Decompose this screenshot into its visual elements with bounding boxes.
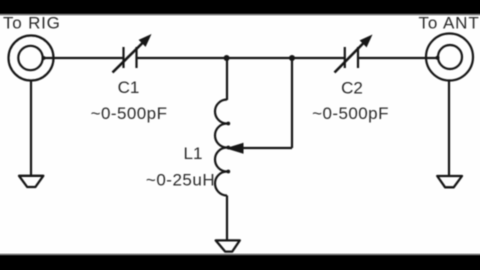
connector J2 (To ANT coax jack) bbox=[426, 34, 473, 81]
wire: L1 bottom to ground bbox=[226, 196, 228, 241]
wire: C2 to J2 bbox=[358, 56, 440, 60]
wire: J2 shell to ground bbox=[448, 81, 450, 176]
svg-text:To ANT: To ANT bbox=[419, 14, 480, 33]
node B (junction dot) bbox=[289, 55, 295, 61]
wire: C1 to node A bbox=[137, 57, 228, 59]
svg-text:To RIG: To RIG bbox=[3, 14, 61, 33]
svg-text:L1: L1 bbox=[184, 144, 203, 163]
svg-text:C2: C2 bbox=[341, 79, 363, 98]
wire: tap horizontal to L1 bbox=[243, 147, 293, 149]
wire: J1 shell to ground bbox=[30, 81, 32, 176]
wire: node A down to L1 bbox=[226, 58, 228, 100]
capacitor C1 (variable, ~0-500pF) bbox=[113, 34, 152, 73]
connector J1 (To RIG coax jack) bbox=[9, 36, 54, 81]
inductor L1 (4 turns, bulging left) bbox=[215, 100, 230, 196]
tap arrowhead (points left into L1) bbox=[226, 143, 244, 154]
node A (junction dot) bbox=[224, 55, 230, 61]
ground GND2 bbox=[216, 240, 240, 251]
wire: node A to node B bbox=[227, 57, 292, 59]
svg-text:~0-25uH: ~0-25uH bbox=[146, 171, 215, 190]
wire: node B down (tap feed) bbox=[291, 58, 293, 148]
svg-text:~0-500pF: ~0-500pF bbox=[91, 104, 168, 123]
svg-text:~0-500pF: ~0-500pF bbox=[312, 104, 389, 123]
capacitor C2 (variable, ~0-500pF) bbox=[335, 35, 373, 73]
wire: J1 center to C1 bbox=[42, 56, 124, 60]
ground GND3 bbox=[437, 176, 462, 187]
wire: node B to C2 bbox=[292, 57, 345, 59]
ground GND1 bbox=[19, 176, 43, 187]
svg-text:C1: C1 bbox=[118, 78, 140, 97]
